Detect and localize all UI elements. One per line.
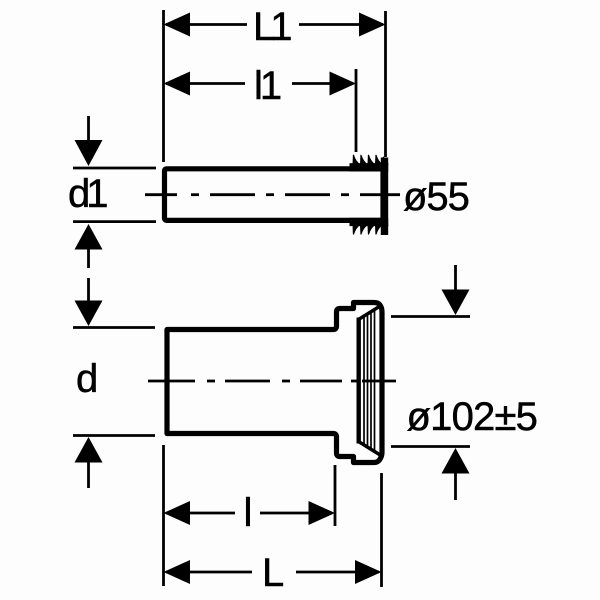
svg-text:ø55: ø55: [403, 175, 469, 219]
dimension L right extension line: [380, 473, 383, 587]
centerline of pipe P1: [145, 193, 400, 196]
dimension d1 upper extension line: [73, 167, 156, 170]
dimension d upper extension line: [73, 326, 155, 329]
dimension l1 extension line right: [355, 69, 358, 152]
svg-text:l: l: [244, 491, 253, 535]
pipe P1 top serration teeth: [353, 155, 389, 165]
dimension L1 extension line left: [162, 10, 165, 162]
svg-text:L1: L1: [253, 5, 293, 49]
dimension l1 line and arrowheads: [166, 82, 353, 85]
dimension L1 extension line right: [384, 11, 387, 157]
svg-text:d: d: [76, 357, 98, 401]
dimension d1 lower extension line: [73, 220, 156, 223]
dimension d1 upper arrow: [87, 116, 90, 145]
pipe P2 socket bottom inner taper: [359, 442, 382, 456]
pipe P1 (upper spigot pipe d55) body: [165, 169, 384, 221]
dimension d lower arrow: [75, 437, 103, 463]
double arrow between pipes: [75, 224, 103, 250]
pipe P2 socket rib lines: [364, 309, 375, 451]
dimension d lower extension line: [73, 434, 155, 437]
dimension l / L left extension line: [162, 445, 165, 586]
dimension L line and arrowheads: [166, 571, 379, 574]
pipe P1 bottom serration band: [350, 218, 389, 226]
svg-text:ø102±5: ø102±5: [407, 395, 538, 439]
dimension l line and arrowheads: [166, 512, 332, 515]
dimension l right extension line: [334, 465, 337, 526]
dimension ø102 lower extension line: [391, 445, 470, 448]
pipe P2 socket inner lip edge: [357, 318, 361, 444]
dimension ø102 upper arrow: [454, 265, 457, 292]
svg-text:l1: l1: [254, 64, 282, 108]
svg-text:L: L: [262, 551, 284, 595]
centerline of pipe P2: [148, 380, 396, 383]
pipe P2 (lower socket pipe d102) outer contour: [167, 303, 382, 463]
dimension ø102 lower arrow: [442, 448, 470, 474]
pipe P2 socket top inner taper: [359, 306, 382, 320]
pipe P1 bottom serration teeth: [353, 225, 389, 235]
pipe P1 top serration band: [350, 163, 389, 171]
dimension L1 line and arrowheads: [166, 23, 383, 26]
svg-text:d1: d1: [68, 172, 109, 216]
pipe P1 end bar (right edge): [381, 158, 388, 236]
dimension ø102 upper extension line: [391, 315, 470, 318]
